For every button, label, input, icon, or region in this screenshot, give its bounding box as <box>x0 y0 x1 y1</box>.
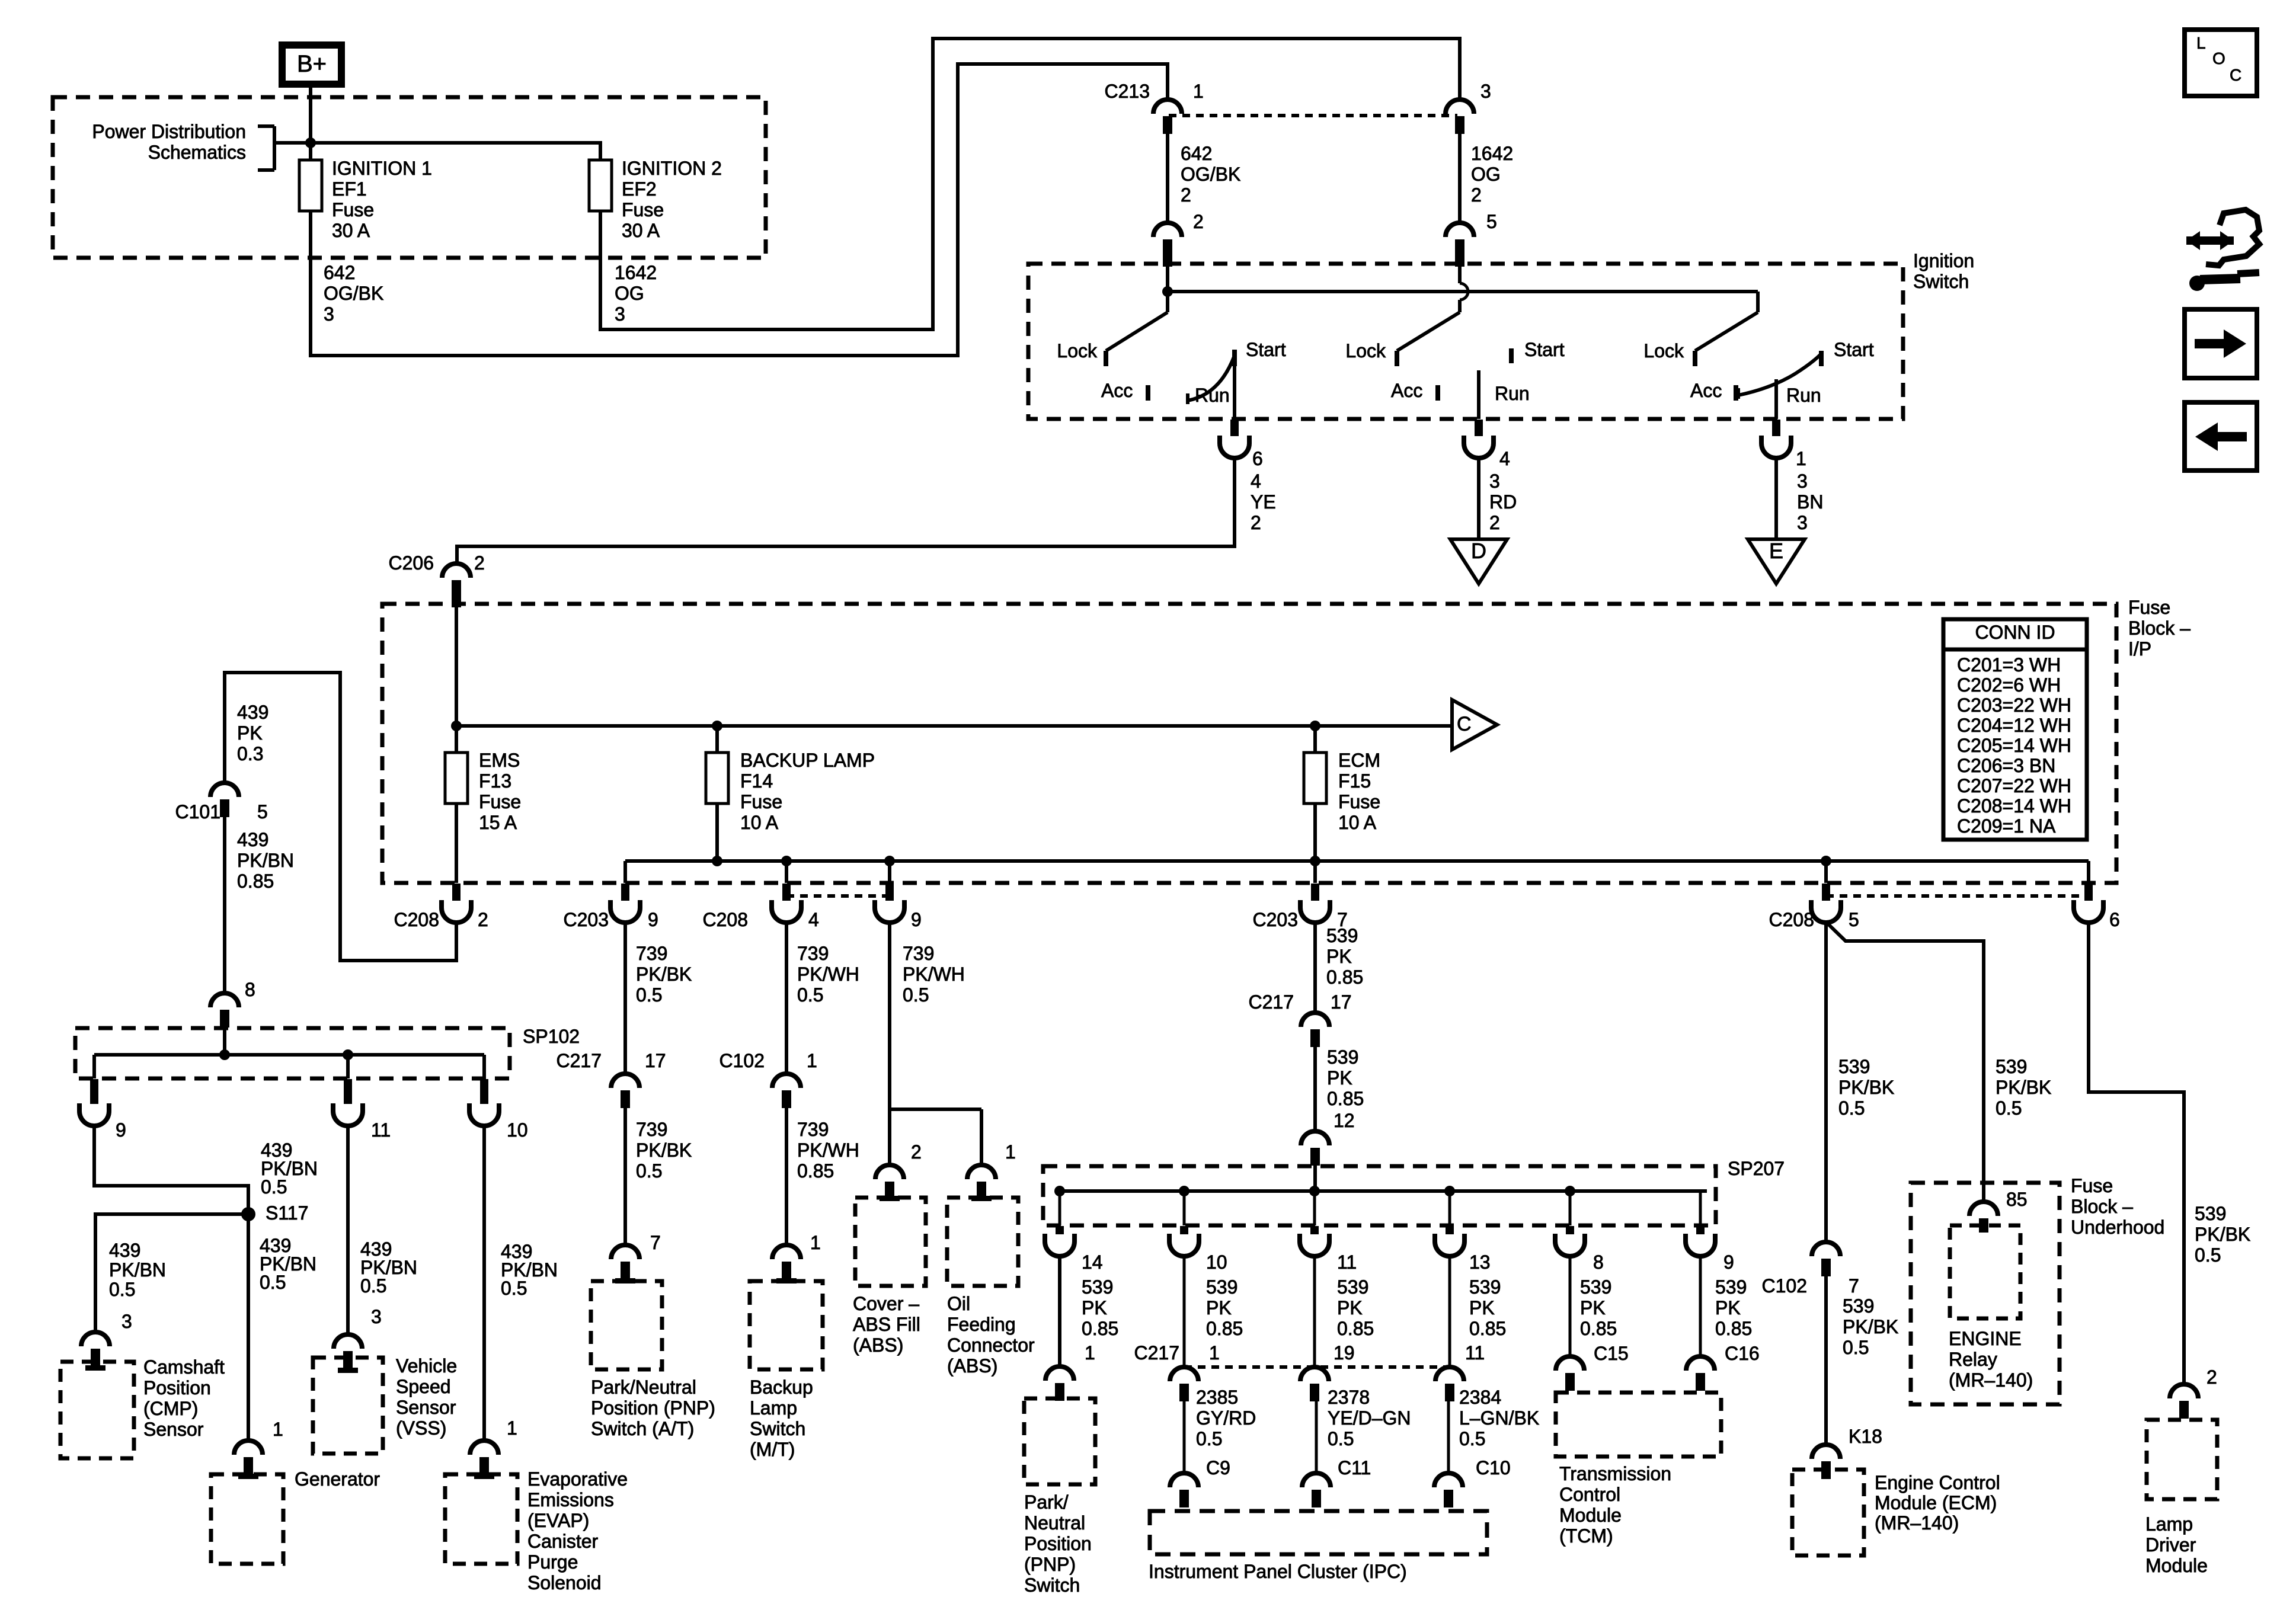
svg-text:539: 539 <box>1206 1276 1237 1298</box>
svg-text:4: 4 <box>1499 448 1510 469</box>
svg-text:739: 739 <box>903 943 934 964</box>
svg-text:30 A: 30 A <box>622 220 660 241</box>
svg-text:PK/WH: PK/WH <box>903 964 965 985</box>
svg-text:0.85: 0.85 <box>797 1160 834 1182</box>
svg-text:3: 3 <box>1489 470 1500 492</box>
svg-text:(ABS): (ABS) <box>853 1334 903 1356</box>
svg-text:Fuse: Fuse <box>1338 791 1380 812</box>
svg-text:C202=6 WH: C202=6 WH <box>1957 674 2061 696</box>
svg-text:PK/BK: PK/BK <box>636 1140 692 1161</box>
svg-text:C209=1 NA: C209=1 NA <box>1957 815 2056 837</box>
svg-text:D: D <box>1471 539 1486 563</box>
svg-text:F15: F15 <box>1338 770 1371 792</box>
svg-text:PK/WH: PK/WH <box>797 1140 859 1161</box>
svg-text:0.85: 0.85 <box>1580 1318 1617 1339</box>
svg-text:C9: C9 <box>1206 1457 1230 1478</box>
svg-text:EF2: EF2 <box>622 178 657 200</box>
svg-text:0.5: 0.5 <box>261 1176 287 1198</box>
svg-text:Position: Position <box>1024 1533 1092 1554</box>
svg-text:SP102: SP102 <box>523 1026 580 1047</box>
svg-text:Fuse: Fuse <box>332 199 374 220</box>
svg-text:0.5: 0.5 <box>1838 1097 1865 1119</box>
svg-text:12: 12 <box>1334 1110 1355 1131</box>
svg-text:2: 2 <box>911 1141 922 1163</box>
svg-text:C11: C11 <box>1338 1457 1371 1478</box>
svg-text:YE/D–GN: YE/D–GN <box>1328 1407 1411 1429</box>
svg-text:15 A: 15 A <box>479 812 517 833</box>
svg-text:PK: PK <box>237 722 263 744</box>
svg-text:(VSS): (VSS) <box>396 1417 446 1439</box>
svg-text:0.85: 0.85 <box>1206 1318 1243 1339</box>
svg-text:C201=3 WH: C201=3 WH <box>1957 654 2061 676</box>
svg-text:Park/Neutral: Park/Neutral <box>591 1377 696 1398</box>
svg-text:C208=14 WH: C208=14 WH <box>1957 795 2071 817</box>
svg-text:1: 1 <box>807 1050 817 1071</box>
svg-text:8: 8 <box>245 979 255 1000</box>
svg-text:(MR–140): (MR–140) <box>1875 1512 1959 1534</box>
svg-text:2385: 2385 <box>1196 1387 1238 1408</box>
svg-text:10: 10 <box>1206 1251 1227 1273</box>
svg-text:0.85: 0.85 <box>1326 966 1363 988</box>
svg-text:PK/BN: PK/BN <box>109 1259 166 1281</box>
svg-text:Emissions: Emissions <box>527 1489 614 1510</box>
svg-text:5: 5 <box>1849 909 1859 930</box>
svg-text:3: 3 <box>1797 470 1808 492</box>
svg-text:Relay: Relay <box>1949 1349 1997 1370</box>
svg-text:0.5: 0.5 <box>260 1272 286 1293</box>
svg-text:Transmission: Transmission <box>1559 1463 1671 1484</box>
svg-text:0.85: 0.85 <box>1327 1088 1364 1109</box>
svg-text:Oil: Oil <box>947 1293 970 1314</box>
svg-text:739: 739 <box>797 943 829 964</box>
svg-text:Canister: Canister <box>527 1531 599 1552</box>
svg-text:OG: OG <box>615 283 644 304</box>
svg-text:0.5: 0.5 <box>501 1278 527 1299</box>
svg-text:3: 3 <box>615 303 625 325</box>
svg-text:C206: C206 <box>389 552 434 574</box>
svg-text:2: 2 <box>2207 1366 2217 1388</box>
svg-text:2: 2 <box>478 909 488 930</box>
svg-text:2: 2 <box>1471 184 1482 206</box>
svg-text:Run: Run <box>1786 385 1821 406</box>
svg-text:5: 5 <box>257 801 268 822</box>
svg-text:19: 19 <box>1334 1342 1355 1363</box>
svg-text:11: 11 <box>1337 1251 1357 1273</box>
svg-text:0.5: 0.5 <box>1196 1428 1222 1449</box>
svg-text:Start: Start <box>1524 339 1565 360</box>
svg-text:C10: C10 <box>1476 1457 1511 1478</box>
svg-text:CONN ID: CONN ID <box>1975 622 2055 643</box>
svg-text:C: C <box>2230 66 2241 84</box>
svg-text:(PNP): (PNP) <box>1024 1554 1076 1575</box>
svg-text:C203: C203 <box>564 909 609 930</box>
svg-text:739: 739 <box>636 943 667 964</box>
svg-text:0.5: 0.5 <box>2195 1244 2221 1266</box>
svg-text:539: 539 <box>1996 1056 2027 1077</box>
svg-text:OG: OG <box>1471 164 1501 185</box>
svg-text:Feeding: Feeding <box>947 1314 1016 1335</box>
svg-text:0.5: 0.5 <box>636 984 662 1006</box>
svg-text:Fuse: Fuse <box>479 791 521 812</box>
svg-text:0.5: 0.5 <box>636 1160 662 1182</box>
svg-text:2: 2 <box>1181 184 1191 206</box>
svg-text:9: 9 <box>116 1119 126 1141</box>
svg-text:(ABS): (ABS) <box>947 1355 997 1377</box>
svg-text:439: 439 <box>109 1240 140 1261</box>
svg-text:EMS: EMS <box>479 750 520 771</box>
svg-text:(M/T): (M/T) <box>750 1439 795 1460</box>
svg-text:Fuse: Fuse <box>622 199 664 220</box>
svg-text:ABS Fill: ABS Fill <box>853 1314 920 1335</box>
svg-text:3: 3 <box>371 1306 382 1327</box>
svg-text:Run: Run <box>1495 383 1530 404</box>
svg-text:0.5: 0.5 <box>360 1275 386 1297</box>
svg-text:PK: PK <box>1206 1297 1232 1318</box>
svg-text:B+: B+ <box>297 51 327 77</box>
svg-text:PK: PK <box>1469 1297 1495 1318</box>
svg-text:PK: PK <box>1337 1297 1363 1318</box>
svg-text:3: 3 <box>324 303 334 325</box>
svg-text:F13: F13 <box>479 770 511 792</box>
svg-text:Instrument Panel Cluster (IPC): Instrument Panel Cluster (IPC) <box>1149 1561 1407 1582</box>
svg-text:Fuse: Fuse <box>740 791 782 812</box>
svg-text:O: O <box>2212 49 2225 68</box>
svg-text:539: 539 <box>1337 1276 1368 1298</box>
svg-text:OG/BK: OG/BK <box>1181 164 1240 185</box>
svg-text:642: 642 <box>324 262 355 283</box>
svg-text:PK/BK: PK/BK <box>1996 1077 2051 1098</box>
svg-text:YE: YE <box>1251 491 1276 513</box>
svg-text:1642: 1642 <box>1471 143 1513 164</box>
svg-text:539: 539 <box>1327 1046 1358 1068</box>
svg-text:1: 1 <box>1085 1342 1095 1363</box>
svg-text:C203=22 WH: C203=22 WH <box>1957 694 2071 716</box>
svg-text:10: 10 <box>507 1119 528 1141</box>
svg-text:S117: S117 <box>266 1202 308 1224</box>
svg-text:Position (PNP): Position (PNP) <box>591 1397 715 1419</box>
svg-text:30 A: 30 A <box>332 220 370 241</box>
svg-text:C208: C208 <box>1769 909 1815 930</box>
svg-text:L–GN/BK: L–GN/BK <box>1459 1407 1539 1429</box>
svg-text:PK: PK <box>1082 1297 1107 1318</box>
svg-text:0.5: 0.5 <box>1459 1428 1485 1449</box>
svg-text:4: 4 <box>1251 470 1261 492</box>
svg-text:C101: C101 <box>175 801 221 822</box>
svg-text:SP207: SP207 <box>1728 1158 1785 1179</box>
svg-text:9: 9 <box>1723 1251 1734 1273</box>
svg-text:L: L <box>2196 34 2206 52</box>
svg-text:C208: C208 <box>394 909 440 930</box>
svg-text:0.5: 0.5 <box>797 984 823 1006</box>
svg-text:Block –: Block – <box>2128 617 2191 639</box>
svg-text:PK: PK <box>1326 946 1352 967</box>
svg-text:Run: Run <box>1195 385 1230 406</box>
svg-text:PK/BK: PK/BK <box>2195 1224 2250 1245</box>
svg-text:0.3: 0.3 <box>237 743 263 764</box>
svg-text:PK/WH: PK/WH <box>797 964 859 985</box>
svg-text:539: 539 <box>1580 1276 1611 1298</box>
svg-text:K18: K18 <box>1849 1426 1882 1447</box>
svg-text:739: 739 <box>636 1119 667 1140</box>
svg-text:Lamp: Lamp <box>750 1397 797 1419</box>
svg-text:C203: C203 <box>1253 909 1299 930</box>
svg-text:Purge: Purge <box>527 1551 578 1573</box>
svg-text:C217: C217 <box>557 1050 602 1071</box>
svg-text:Switch: Switch <box>1024 1574 1080 1596</box>
svg-text:539: 539 <box>1082 1276 1113 1298</box>
svg-text:2: 2 <box>1489 512 1500 533</box>
svg-text:0.5: 0.5 <box>1996 1097 2022 1119</box>
svg-text:10 A: 10 A <box>740 812 779 833</box>
svg-text:OG/BK: OG/BK <box>324 283 383 304</box>
svg-text:Block –: Block – <box>2071 1196 2133 1217</box>
svg-text:0.5: 0.5 <box>1843 1337 1869 1358</box>
svg-text:Module (ECM): Module (ECM) <box>1875 1492 1997 1513</box>
svg-text:C: C <box>1457 713 1472 735</box>
svg-text:IGNITION 1: IGNITION 1 <box>332 158 432 179</box>
svg-text:(CMP): (CMP) <box>143 1398 198 1419</box>
svg-text:C207=22 WH: C207=22 WH <box>1957 775 2071 796</box>
svg-text:Start: Start <box>1834 339 1874 360</box>
svg-text:1: 1 <box>1796 448 1806 469</box>
svg-text:Acc: Acc <box>1101 380 1133 401</box>
svg-text:GY/RD: GY/RD <box>1196 1407 1256 1429</box>
svg-text:Sensor: Sensor <box>143 1419 204 1440</box>
svg-text:Camshaft: Camshaft <box>143 1356 225 1378</box>
svg-text:0.85: 0.85 <box>1715 1318 1752 1339</box>
svg-text:PK/BK: PK/BK <box>1843 1316 1898 1337</box>
svg-text:Lock: Lock <box>1345 340 1386 361</box>
svg-text:BN: BN <box>1797 491 1823 513</box>
svg-text:1: 1 <box>273 1419 283 1440</box>
svg-text:Schematics: Schematics <box>148 142 246 163</box>
svg-text:439: 439 <box>237 702 268 723</box>
svg-text:739: 739 <box>797 1119 829 1140</box>
svg-text:Lamp: Lamp <box>2145 1513 2193 1535</box>
svg-text:Lock: Lock <box>1643 340 1684 361</box>
svg-text:I/P: I/P <box>2128 638 2151 660</box>
svg-text:PK/BK: PK/BK <box>1838 1077 1894 1098</box>
svg-text:7: 7 <box>650 1232 661 1253</box>
svg-text:9: 9 <box>911 909 922 930</box>
svg-text:Control: Control <box>1559 1484 1620 1505</box>
svg-text:439: 439 <box>237 829 268 850</box>
svg-text:(MR–140): (MR–140) <box>1949 1369 2033 1391</box>
svg-text:Module: Module <box>1559 1505 1622 1526</box>
svg-text:Cover –: Cover – <box>853 1293 919 1314</box>
svg-text:(EVAP): (EVAP) <box>527 1510 589 1531</box>
svg-text:2: 2 <box>474 552 485 574</box>
svg-text:Sensor: Sensor <box>396 1397 456 1418</box>
svg-text:11: 11 <box>1465 1342 1485 1363</box>
svg-text:F14: F14 <box>740 770 773 792</box>
svg-text:Power Distribution: Power Distribution <box>92 121 246 142</box>
svg-text:Acc: Acc <box>1690 380 1722 401</box>
svg-text:Speed: Speed <box>396 1376 451 1397</box>
svg-text:0.85: 0.85 <box>1469 1318 1506 1339</box>
svg-text:C102: C102 <box>720 1050 765 1071</box>
svg-text:PK: PK <box>1580 1297 1606 1318</box>
svg-text:Ignition: Ignition <box>1913 250 1974 271</box>
svg-text:C16: C16 <box>1725 1343 1760 1364</box>
svg-text:(TCM): (TCM) <box>1559 1525 1613 1547</box>
svg-text:0.5: 0.5 <box>1328 1428 1354 1449</box>
svg-text:1: 1 <box>1209 1342 1220 1363</box>
svg-text:PK: PK <box>1715 1297 1741 1318</box>
svg-text:11: 11 <box>371 1119 391 1141</box>
svg-text:539: 539 <box>1469 1276 1501 1298</box>
svg-text:3: 3 <box>1480 81 1491 102</box>
svg-text:2: 2 <box>1251 512 1261 533</box>
svg-text:539: 539 <box>1838 1056 1870 1077</box>
svg-text:Module: Module <box>2145 1555 2208 1576</box>
svg-text:539: 539 <box>1326 925 1358 946</box>
svg-text:85: 85 <box>2006 1189 2028 1210</box>
svg-text:ECM: ECM <box>1338 750 1380 771</box>
svg-text:6: 6 <box>2109 909 2120 930</box>
svg-text:IGNITION 2: IGNITION 2 <box>622 158 722 179</box>
svg-text:Backup: Backup <box>750 1377 813 1398</box>
svg-text:4: 4 <box>808 909 819 930</box>
svg-text:BACKUP LAMP: BACKUP LAMP <box>740 750 875 771</box>
svg-text:Lock: Lock <box>1057 340 1098 361</box>
svg-text:0.85: 0.85 <box>237 870 274 892</box>
svg-text:539: 539 <box>1843 1295 1874 1317</box>
svg-text:C15: C15 <box>1594 1343 1629 1364</box>
svg-text:Solenoid: Solenoid <box>527 1572 602 1593</box>
svg-text:Evaporative: Evaporative <box>527 1468 628 1490</box>
svg-text:1: 1 <box>1005 1141 1016 1163</box>
svg-text:Acc: Acc <box>1391 380 1422 401</box>
svg-text:Start: Start <box>1246 339 1286 360</box>
svg-text:0.85: 0.85 <box>1337 1318 1374 1339</box>
svg-text:Connector: Connector <box>947 1334 1035 1356</box>
svg-text:RD: RD <box>1489 491 1517 513</box>
svg-text:C213: C213 <box>1105 81 1150 102</box>
svg-text:Fuse: Fuse <box>2071 1175 2113 1196</box>
svg-text:PK/BK: PK/BK <box>636 964 692 985</box>
svg-text:Neutral: Neutral <box>1024 1512 1085 1534</box>
svg-text:Fuse: Fuse <box>2128 597 2170 618</box>
svg-text:7: 7 <box>1849 1275 1859 1297</box>
svg-text:642: 642 <box>1181 143 1212 164</box>
svg-text:Generator: Generator <box>295 1468 380 1490</box>
svg-text:2: 2 <box>1193 211 1204 232</box>
svg-text:6: 6 <box>1252 448 1263 469</box>
svg-text:C208: C208 <box>703 909 749 930</box>
svg-text:10 A: 10 A <box>1338 812 1377 833</box>
svg-text:3: 3 <box>121 1311 132 1332</box>
svg-text:539: 539 <box>1715 1276 1747 1298</box>
svg-text:ENGINE: ENGINE <box>1949 1328 2022 1349</box>
svg-text:1: 1 <box>507 1417 517 1439</box>
svg-text:Driver: Driver <box>2145 1534 2196 1555</box>
svg-text:1: 1 <box>810 1232 821 1253</box>
svg-text:Park/: Park/ <box>1024 1491 1069 1513</box>
svg-text:17: 17 <box>645 1050 666 1071</box>
svg-text:C102: C102 <box>1762 1275 1808 1297</box>
svg-text:PK: PK <box>1327 1067 1352 1089</box>
svg-text:PK/BN: PK/BN <box>237 850 294 871</box>
svg-text:Vehicle: Vehicle <box>396 1355 457 1377</box>
svg-text:9: 9 <box>648 909 658 930</box>
svg-text:Underhood: Underhood <box>2071 1217 2164 1238</box>
svg-text:5: 5 <box>1486 211 1497 232</box>
svg-text:539: 539 <box>2195 1203 2226 1224</box>
svg-text:EF1: EF1 <box>332 178 367 200</box>
svg-text:C205=14 WH: C205=14 WH <box>1957 735 2071 756</box>
svg-text:Position: Position <box>143 1377 211 1398</box>
svg-text:1: 1 <box>1193 81 1204 102</box>
svg-text:0.5: 0.5 <box>903 984 929 1006</box>
svg-text:0.85: 0.85 <box>1082 1318 1118 1339</box>
svg-text:C204=12 WH: C204=12 WH <box>1957 715 2071 736</box>
svg-text:1642: 1642 <box>615 262 657 283</box>
svg-text:13: 13 <box>1469 1251 1491 1273</box>
svg-text:14: 14 <box>1082 1251 1103 1273</box>
svg-text:Switch (A/T): Switch (A/T) <box>591 1418 694 1439</box>
svg-text:3: 3 <box>1797 512 1808 533</box>
svg-text:0.5: 0.5 <box>109 1279 135 1300</box>
svg-text:Switch: Switch <box>1913 271 1969 292</box>
svg-text:Switch: Switch <box>750 1418 805 1439</box>
svg-text:2378: 2378 <box>1328 1387 1370 1408</box>
svg-text:C206=3 BN: C206=3 BN <box>1957 755 2055 776</box>
svg-text:8: 8 <box>1593 1251 1604 1273</box>
svg-text:17: 17 <box>1331 991 1352 1013</box>
svg-text:E: E <box>1769 539 1783 563</box>
svg-text:C217: C217 <box>1134 1342 1180 1363</box>
svg-text:Engine Control: Engine Control <box>1875 1472 2000 1493</box>
svg-text:C217: C217 <box>1249 991 1294 1013</box>
svg-text:2384: 2384 <box>1459 1387 1501 1408</box>
